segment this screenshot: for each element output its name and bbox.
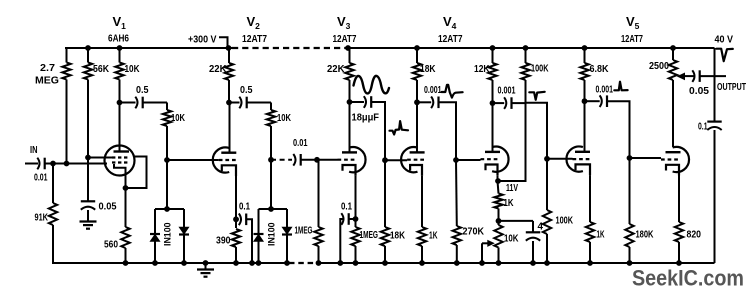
capacitor 0.05 screen bypass (81, 201, 95, 209)
label 12AT7 (V2) (242, 34, 267, 45)
resistor 1K V5a cathode (586, 222, 594, 263)
svg-text:1K: 1K (429, 231, 438, 242)
label 10K grid stopper (171, 113, 185, 124)
svg-text:OUTPUT: OUTPUT (717, 82, 746, 93)
wire 0.01 to V3 grid junction (301, 159, 317, 161)
wire 0.1-2 right lead (349, 218, 356, 220)
svg-text:SeekIC.com: SeekIC.com (632, 266, 744, 291)
label 560 (104, 240, 118, 251)
svg-text:100K: 100K (556, 216, 574, 227)
wire IN100 pair-2 top bus (259, 208, 288, 210)
svg-text:2.7: 2.7 (40, 63, 55, 74)
tube V4b triode (481, 147, 509, 176)
label 1MEG (first) (295, 226, 313, 237)
wire V4a grid (385, 159, 407, 161)
svg-text:10K: 10K (125, 64, 140, 75)
resistor 1K V4a cathode (418, 227, 426, 263)
wire V2 grid (167, 159, 219, 161)
svg-text:6AH6: 6AH6 (108, 34, 129, 45)
resistor 390 V2 cathode (232, 229, 240, 263)
svg-text:390: 390 (216, 236, 231, 247)
wire 0.1-2 left lead to rail (340, 219, 343, 263)
wire 56K down to 0.05 cap (87, 158, 89, 203)
wire V5a plate to 0.001C (585, 100, 600, 102)
wire V4a plate to 0.001 (417, 101, 431, 103)
svg-text:12AT7: 12AT7 (438, 34, 463, 45)
wire V3 plate to 18uuF (350, 101, 365, 103)
resistor 2.7 MEG (62, 48, 70, 164)
wire V5a plate to tube (584, 101, 586, 152)
svg-text:18μμF: 18μμF (352, 113, 380, 124)
label 18K (top) (420, 64, 436, 75)
label 0.1 (V2) (239, 202, 250, 213)
label 1K (V4b) (504, 198, 514, 209)
label 0.05 output (689, 86, 709, 97)
wire 1K/10K junction to 4uF (499, 220, 534, 222)
label 22K (V3) (327, 64, 345, 75)
node 180K rail junction (627, 260, 633, 266)
node 100K-2 rail junction (544, 260, 550, 266)
svg-text:18K: 18K (420, 64, 436, 75)
svg-text:0.05: 0.05 (689, 86, 709, 97)
ground symbol on bottom rail (197, 270, 214, 277)
node ground stub (203, 260, 209, 266)
tube V1 cathode bar (114, 164, 126, 171)
node V5a plate junction (582, 98, 588, 104)
label 0.5 (first) (136, 85, 149, 96)
node 18K top rail junction (414, 45, 420, 51)
label 12AT7 (V4) (438, 34, 463, 45)
label 100K (top) (531, 64, 549, 75)
node V4b grid junction (453, 157, 459, 163)
label 10K V1 plate (125, 64, 140, 75)
resistor 1MEG V3 grid (314, 160, 322, 263)
svg-text:22K: 22K (327, 64, 345, 75)
resistor 180K V5b grid leak (625, 158, 633, 263)
node V1 plate junction (117, 100, 123, 106)
capacitor 0.001 coupling B (504, 97, 511, 109)
svg-text:100K: 100K (531, 64, 549, 75)
ground below 0.05 (80, 222, 97, 229)
node V5b grid junction (627, 155, 633, 161)
wire 2500 wiper (677, 73, 694, 81)
label +300 V supply (188, 35, 217, 46)
node IN100-2 left rail (256, 260, 262, 266)
wire 0.5 to 10K (247, 102, 271, 104)
label 1K (V5a) (597, 230, 605, 241)
label 10K pot (504, 234, 519, 245)
wire top B+ rail dashed segment (232, 47, 347, 49)
tube label V1 (113, 14, 127, 31)
wire bottom ground rail left segment (52, 262, 289, 264)
wire 0.1 cap down to rail (246, 219, 252, 263)
label 18K (bottom) (390, 231, 405, 242)
label 91K (35, 213, 49, 224)
resistor 12K V4b plate (488, 48, 496, 103)
label 2500 (649, 61, 669, 72)
node IN100-2 right rail (284, 260, 290, 266)
waveform icon differentiated pulse (442, 85, 463, 98)
capacitor 0.1 V2 cathode bypass (239, 214, 246, 226)
node V2 grid junction (164, 157, 170, 163)
svg-text:0.1: 0.1 (698, 122, 708, 133)
wire bottom ground rail right segment (316, 262, 715, 264)
label 10K (third) (277, 113, 291, 124)
label 0.01 interstage (293, 138, 308, 149)
svg-text:0.1: 0.1 (341, 202, 352, 213)
label 11V (506, 183, 518, 194)
node 270K rail junction (454, 260, 460, 266)
svg-text:10K: 10K (277, 113, 291, 124)
wire top B+ rail solid right segment (347, 47, 715, 49)
wire 0.001C to V5b grid junction (607, 101, 630, 158)
tube V2a triode (213, 147, 238, 176)
wire coupling to V5a grid (526, 103, 548, 159)
wire V1 plate to 0.5 cap (120, 102, 136, 104)
node 56K screen junction (85, 155, 91, 161)
svg-text:+300 V: +300 V (188, 35, 217, 46)
waveform icon small spike (390, 121, 409, 134)
label 6AH6 (108, 34, 129, 45)
resistor 10K V1 plate (115, 48, 123, 103)
waveform icon notched pulse (529, 92, 544, 100)
svg-text:0.01: 0.01 (34, 173, 48, 184)
label 180K (636, 230, 654, 241)
tube label V5 (626, 14, 640, 31)
svg-text:0.001: 0.001 (498, 86, 516, 97)
label 0.05 screen cap (99, 202, 117, 213)
tube V4a triode (401, 147, 426, 176)
label 0.001 A (424, 85, 442, 96)
svg-text:22K: 22K (209, 64, 227, 75)
node 1K rail junction (419, 260, 425, 266)
label 40 V (715, 35, 734, 46)
wire 10K pot wiper (482, 240, 495, 263)
wire IN100 pair-1 top bus (155, 208, 184, 210)
tube V5b triode (661, 147, 689, 176)
resistor 100K (top) (521, 48, 529, 103)
wire +300V hook (219, 37, 228, 48)
svg-text:1MEG: 1MEG (295, 226, 313, 237)
wire bottom rail dashed segment (289, 262, 316, 264)
label IN100 pair-2 (267, 222, 277, 246)
resistor 22K V2 plate (225, 48, 233, 103)
label 12AT7 (V3) (333, 34, 357, 45)
capacitor 0.1 output line (707, 122, 721, 130)
wire V3 grid (317, 159, 338, 161)
node V2 plate junction (226, 100, 232, 106)
label 100K (bottom) (556, 216, 574, 227)
resistor 22K V3 plate (345, 48, 353, 102)
wire 0.05 to ground (87, 210, 89, 222)
wire top B+ rail solid left segment (65, 47, 232, 49)
label 0.1 output (698, 122, 708, 133)
wire screen feed (88, 157, 112, 159)
tube label V3 (337, 14, 351, 31)
tube label V4 (443, 14, 457, 31)
svg-text:10K: 10K (171, 113, 185, 124)
capacitor 0.05 output (692, 70, 699, 82)
node 91K junction (50, 161, 56, 167)
resistor 2500 potentiometer (669, 48, 677, 147)
svg-text:12K: 12K (474, 64, 490, 75)
label 1K (V4a) (429, 231, 438, 242)
capacitor 18uuF coupling (364, 96, 371, 108)
node IN100-1 left rail (152, 260, 158, 266)
wire V5a cathode lead (589, 175, 591, 222)
capacitor 0.5 coupling V1-V2 (135, 97, 142, 109)
node dashed-link junction (268, 157, 274, 163)
resistor 270K V4b grid leak (453, 160, 461, 263)
svg-text:0.001: 0.001 (596, 85, 614, 96)
diode IN100 D1 (up) (150, 234, 160, 241)
capacitor 0.5 coupling (second) (239, 97, 246, 109)
wire IN100 pair-1 right leg (183, 209, 185, 263)
tube V3 triode (338, 147, 366, 176)
wire V2 plate to tube (229, 103, 231, 153)
node 56K rail junction (85, 45, 91, 51)
label 2.7 MEG (35, 63, 59, 87)
svg-text:0.01: 0.01 (293, 138, 308, 149)
wire IN100 pair-2 right leg (286, 209, 288, 263)
label 0.1 (second) (341, 202, 352, 213)
capacitor 4uF (526, 221, 540, 263)
wire V5b cathode lead (678, 176, 680, 223)
svg-text:0.5: 0.5 (240, 85, 253, 96)
node 1K-2 rail junction (587, 260, 593, 266)
resistor 820 V5b cathode (675, 222, 683, 263)
resistor 1K V4b cathode (494, 181, 502, 221)
node V4b plate junction (490, 100, 496, 106)
tube V1 6AH6 envelope (105, 146, 135, 176)
capacitor 0.1 (second) (341, 213, 348, 225)
label 12K (474, 64, 490, 75)
wire input lead (25, 163, 38, 165)
wire V1 plate to tube (119, 103, 121, 152)
svg-text:0.05: 0.05 (99, 202, 117, 213)
node V3 cathode junction (353, 216, 359, 222)
svg-text:11V: 11V (506, 183, 518, 194)
wire 100K line down to cathode loop (498, 103, 526, 181)
node V1 plate resistor rail junction (117, 45, 123, 51)
node wiper rail junction (479, 260, 485, 266)
svg-text:56K: 56K (93, 64, 109, 75)
wire V1 cathode lead (125, 171, 127, 227)
label 270K (463, 227, 485, 238)
node 10K pot rail junction (496, 260, 502, 266)
wire V5a grid (547, 158, 573, 160)
svg-text:270K: 270K (463, 227, 485, 238)
node V1 cathode junction (123, 185, 129, 191)
wire grid junction down to diode pair (166, 160, 168, 209)
wire IN100 pair-1 left leg (154, 209, 156, 263)
node 1MEG rail junction (316, 260, 322, 266)
node 22K V3 rail junction (345, 45, 351, 51)
node 1K/10K junction (496, 218, 502, 224)
node V4b cathode junction (495, 178, 501, 184)
wire ground stub (205, 263, 207, 269)
label 56K (93, 64, 109, 75)
wire V2 plate to 0.5 cap (229, 102, 240, 104)
wire output lead (700, 75, 726, 77)
wire 0.001A to V4b grid junction (439, 102, 457, 160)
diode IN100 D2 (down) (179, 227, 189, 234)
svg-text:1K: 1K (597, 230, 605, 241)
node V3 plate junction (347, 99, 353, 105)
node 2.7MEG junction (64, 161, 70, 167)
label IN100 pair-1 (163, 222, 173, 246)
wire V5b grid (630, 157, 662, 159)
resistor 100K V5a grid leak (543, 159, 551, 263)
svg-text:0.1: 0.1 (239, 202, 250, 213)
label 0.5 (second) (240, 85, 253, 96)
node IN100 pair-1 stem (164, 206, 170, 212)
wire 0.5 cap to 10K (143, 102, 167, 104)
wire V2a cathode lead (235, 176, 237, 228)
svg-text:2500: 2500 (649, 61, 669, 72)
resistor 1MEG V3 cathode (351, 219, 359, 263)
label IN (30, 145, 38, 156)
resistor 10K V2 grid stopper (163, 103, 171, 161)
label 390 (216, 236, 231, 247)
wire 0.001B to 100K line (512, 102, 526, 104)
node 2500 rail junction (670, 45, 676, 51)
svg-text:1K: 1K (504, 198, 514, 209)
wire 40V right edge down (lower) (714, 130, 716, 263)
wire 40V right edge down (upper) (714, 48, 716, 122)
node 0.1-2 rail junction (337, 260, 343, 266)
label OUTPUT (717, 82, 746, 93)
wire V4a plate to tube (416, 102, 418, 152)
node 0.1 rail junction (249, 260, 255, 266)
svg-text:12AT7: 12AT7 (333, 34, 357, 45)
svg-text:1MEG: 1MEG (360, 230, 379, 241)
diode IN100 D3 (up) (254, 234, 264, 241)
label 12AT7 (V5) (621, 34, 643, 45)
capacitor 0.001 coupling C (600, 95, 607, 107)
svg-text:IN: IN (30, 145, 38, 156)
node V4a grid junction (382, 157, 388, 163)
wire dashed grid link (271, 159, 292, 161)
node 390 rail junction (233, 260, 239, 266)
wire link down to diode pair 2 (270, 160, 272, 209)
waveform icon tall spike (614, 82, 627, 91)
wire V3 cathode lead (355, 176, 357, 219)
label 0.01 input cap (34, 173, 48, 184)
resistor 18K V4a grid leak (381, 160, 389, 263)
label 1MEG (second) (360, 230, 379, 241)
diode IN100 D4 (down) (282, 227, 292, 234)
resistor 10K potentiometer (494, 221, 502, 263)
wire V4b plate to tube (492, 103, 494, 152)
node IN100 pair-2 stem (268, 206, 274, 212)
wire V4b grid (456, 159, 481, 161)
svg-text:40 V: 40 V (715, 35, 734, 46)
label 0.001 C (596, 85, 614, 96)
node IN100-1 right rail (181, 260, 187, 266)
resistor 91K (49, 164, 57, 264)
node 4uF rail junction (530, 260, 536, 266)
node 820 rail junction (676, 260, 682, 266)
tube V1 screen grid dashes (112, 156, 129, 158)
svg-text:180K: 180K (636, 230, 654, 241)
wire V3 plate to tube (349, 102, 351, 152)
node V4a plate junction (414, 99, 420, 105)
node V2 cathode bypass junction (233, 216, 239, 222)
wire V4b plate to 0.001B (493, 102, 505, 104)
svg-text:560: 560 (104, 240, 118, 251)
waveform icon sine wave (354, 76, 390, 94)
resistor 10K (third) (267, 103, 275, 160)
node +300V rail junction (226, 45, 232, 51)
svg-text:18K: 18K (390, 231, 405, 242)
label 6.8K (590, 64, 609, 75)
svg-text:IN100: IN100 (267, 222, 277, 246)
svg-text:6.8K: 6.8K (590, 64, 609, 75)
capacitor 0.001 coupling A (431, 97, 438, 109)
resistor 18K V4a plate (413, 48, 421, 102)
resistor 56K (84, 48, 92, 158)
svg-text:91K: 91K (35, 213, 49, 224)
wire V4b cathode lead (497, 175, 499, 181)
node V5a grid junction (544, 156, 550, 162)
svg-text:0.001: 0.001 (424, 85, 442, 96)
label 4 (538, 222, 544, 233)
node 560 rail junction (123, 260, 129, 266)
node 6.8K rail junction (582, 45, 588, 51)
node 100K top rail junction (523, 45, 529, 51)
node 18K rail junction (382, 260, 388, 266)
label 820 (687, 230, 702, 241)
wire IN100 pair-2 left leg (258, 209, 260, 263)
tube V1 control grid dashes (112, 161, 129, 163)
label 0.001 B (498, 86, 516, 97)
svg-text:12AT7: 12AT7 (242, 34, 267, 45)
svg-text:12AT7: 12AT7 (621, 34, 643, 45)
node 12K rail junction (490, 45, 496, 51)
wire 18uuF to V4 grid junction (371, 102, 385, 160)
resistor 6.8K V5a plate (580, 48, 588, 101)
svg-text:820: 820 (687, 230, 702, 241)
waveform icon output pulse (717, 49, 733, 62)
node 1MEG-2 rail junction (353, 260, 359, 266)
watermark SeekIC.com (632, 266, 744, 291)
node V3 grid junction (314, 157, 320, 163)
svg-text:10K: 10K (504, 234, 519, 245)
wire V4a cathode lead (421, 176, 423, 227)
capacitor 0.01 input coupling (37, 158, 44, 170)
svg-text:MEG: MEG (35, 76, 59, 87)
capacitor 0.01 interstage (293, 154, 300, 166)
svg-text:0.5: 0.5 (136, 85, 149, 96)
label 22K (V2) (209, 64, 227, 75)
wire input to grid (45, 163, 107, 165)
resistor 560 V1 cathode (121, 227, 129, 263)
wire cathode to 0.1 cap (236, 218, 239, 220)
label 18uuF (352, 113, 380, 124)
tube label V2 (247, 14, 261, 31)
wire V1 suppressor loop (126, 157, 147, 189)
svg-text:IN100: IN100 (163, 222, 173, 246)
tube V1 plate bar (114, 150, 130, 152)
tube V5a triode (566, 147, 591, 176)
